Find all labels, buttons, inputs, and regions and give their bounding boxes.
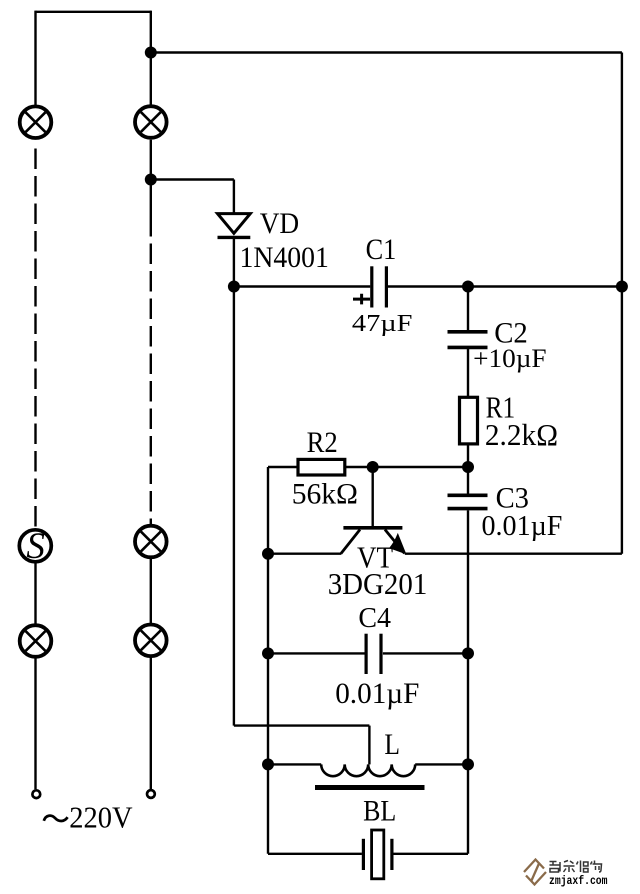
transistor VT	[341, 528, 405, 554]
label BL	[363, 795, 396, 827]
wire left branch vertical	[267, 467, 269, 854]
label C4	[358, 602, 391, 634]
wire top horizontal	[36, 11, 151, 13]
label 0.01uF C4	[335, 677, 419, 710]
label 0.01uF C3	[482, 511, 563, 542]
watermark url	[549, 875, 608, 888]
label 56kOhm	[292, 478, 358, 511]
node junction dot H	[262, 548, 274, 560]
svg-text:1N4001: 1N4001	[240, 241, 329, 274]
svg-text:56kΩ: 56kΩ	[292, 478, 358, 511]
label C1	[366, 233, 397, 266]
wire diode anode lead	[233, 180, 235, 214]
wire inductor left lead	[268, 763, 321, 765]
lamp EL1 top-left	[20, 106, 52, 138]
node junction dot K	[262, 758, 274, 770]
wire y467 node to base branch	[345, 466, 468, 468]
lamp EL5 bottom-right	[135, 625, 167, 657]
wire below lamp EL2	[150, 140, 152, 216]
wire y179 to diode branch	[151, 178, 234, 180]
label R2	[307, 426, 338, 459]
label 2.2kOhm	[485, 417, 558, 452]
wire C3 bottom lead crossing	[467, 510, 469, 653]
lamp EL2 top-mid	[135, 106, 167, 138]
svg-text:+10µF: +10µF	[473, 343, 546, 373]
inductor L	[321, 764, 415, 776]
lamp EL3 bottom-left	[20, 625, 52, 657]
wire left column to terminal	[34, 657, 36, 789]
polarity plus C1	[353, 294, 370, 305]
label L	[384, 729, 400, 761]
wire y725 to tap	[234, 724, 370, 726]
capacitor C4	[366, 634, 381, 674]
wire S to lamp	[34, 562, 36, 625]
node junction dot J	[462, 647, 474, 659]
sounder BL	[363, 830, 392, 879]
svg-text:C4: C4	[358, 602, 391, 634]
svg-text:220V: 220V	[69, 799, 133, 834]
node junction dot D	[462, 281, 474, 293]
wire right column dashed	[150, 216, 152, 526]
svg-text:VD: VD	[260, 207, 300, 240]
wire inductor center tap	[368, 726, 370, 765]
lamp EL4 mid-right	[135, 526, 167, 558]
wire right column to terminal	[150, 656, 152, 789]
wire right branch to BL	[467, 653, 469, 853]
wire R1 to node	[467, 444, 469, 467]
label C2	[494, 317, 528, 350]
wire C2 top lead	[467, 287, 469, 331]
svg-text:2.2kΩ: 2.2kΩ	[485, 417, 558, 452]
wire emitter to right edge	[405, 553, 622, 555]
svg-text:C1: C1	[366, 233, 397, 266]
wire diode cathode lead	[233, 239, 235, 287]
diode VD	[218, 214, 251, 238]
svg-text:L: L	[384, 729, 400, 761]
inductor core bar	[315, 785, 425, 790]
svg-text:0.01µF: 0.01µF	[482, 511, 563, 542]
svg-text:S: S	[26, 526, 45, 567]
wire y286 C1 to right	[388, 285, 622, 287]
svg-text:3DG201: 3DG201	[328, 566, 428, 601]
wire left column dashed upper	[34, 149, 36, 529]
capacitor C3	[448, 495, 488, 508]
wire collector to left branch	[268, 553, 341, 555]
node junction dot E right edge	[616, 281, 628, 293]
label VT	[357, 540, 393, 575]
wire BL left lead	[268, 853, 362, 855]
label 47uF	[352, 311, 413, 337]
wire inductor right lead	[415, 763, 468, 765]
wire left long vertical from diode	[233, 287, 235, 726]
wire y52 to right edge	[151, 51, 622, 53]
node junction dot G	[367, 461, 379, 473]
wire R2 left lead	[268, 466, 298, 468]
svg-text:R2: R2	[307, 426, 338, 459]
node junction dot F	[462, 461, 474, 473]
label VD	[260, 207, 300, 240]
label ~220V	[44, 799, 133, 834]
wire C3 top lead	[467, 467, 469, 494]
wire C4 left lead	[268, 652, 365, 654]
wire C2 to R1	[467, 349, 469, 397]
svg-text:C3: C3	[496, 483, 529, 515]
wire right column top vertical	[150, 11, 152, 107]
svg-text:47µF: 47µF	[352, 311, 413, 337]
wire C4 right lead	[383, 652, 468, 654]
wire right edge vertical	[621, 53, 623, 554]
wire transistor base lead	[372, 467, 374, 527]
label +10uF	[473, 343, 546, 373]
svg-text:BL: BL	[363, 795, 396, 827]
resistor R1	[460, 397, 478, 444]
node junction dot A	[145, 47, 157, 59]
node junction dot B	[145, 174, 157, 186]
watermark text zhimiao xiaofang	[550, 861, 602, 873]
svg-text:zmjaxf.com: zmjaxf.com	[549, 875, 608, 888]
wire between right lamps	[150, 558, 152, 625]
terminal left	[32, 790, 40, 798]
capacitor C2	[448, 332, 488, 348]
switch S	[19, 526, 51, 567]
node junction dot C	[228, 281, 240, 293]
wire y286 to C1	[234, 285, 370, 287]
svg-text:0.01µF: 0.01µF	[335, 677, 419, 710]
resistor R2	[298, 459, 345, 475]
node junction dot M	[462, 758, 474, 770]
wire left column top vertical	[34, 11, 36, 107]
node junction dot I	[262, 647, 274, 659]
capacitor C1	[372, 266, 387, 307]
label C3	[496, 483, 529, 515]
label 3DG201	[328, 566, 428, 601]
label R1	[486, 390, 516, 425]
label 1N4001	[240, 241, 329, 274]
watermark logo	[524, 860, 546, 885]
terminal right	[147, 790, 155, 798]
wire BL right lead	[393, 853, 468, 855]
